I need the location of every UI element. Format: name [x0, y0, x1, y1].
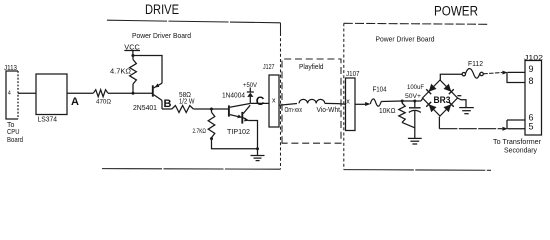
svg-text:POWER: POWER [434, 4, 478, 19]
svg-text:J127: J127 [263, 64, 275, 71]
svg-text:x: x [346, 98, 350, 105]
svg-text:9: 9 [529, 64, 534, 74]
svg-text:A: A [71, 96, 79, 108]
svg-text:470Ω: 470Ω [96, 99, 111, 106]
svg-text:Vio-Wht: Vio-Wht [317, 107, 341, 114]
svg-text:B: B [164, 98, 172, 110]
svg-text:Power Driver Board: Power Driver Board [132, 31, 191, 40]
svg-text:Orn-xxx: Orn-xxx [285, 107, 303, 114]
svg-text:x: x [272, 98, 276, 105]
svg-text:TIP102: TIP102 [227, 127, 250, 136]
svg-text:J102: J102 [524, 55, 543, 62]
svg-text:VCC: VCC [124, 43, 140, 52]
svg-text:1N4004: 1N4004 [222, 93, 245, 100]
svg-text:10KΩ: 10KΩ [379, 108, 396, 115]
svg-text:F104: F104 [373, 87, 387, 94]
svg-text:Playfield: Playfield [299, 64, 324, 71]
svg-text:5: 5 [529, 122, 534, 132]
svg-text:J113: J113 [4, 65, 17, 72]
svg-text:BR3: BR3 [434, 95, 451, 105]
svg-text:4.7KΩ: 4.7KΩ [110, 69, 131, 76]
svg-text:100uF: 100uF [407, 84, 424, 91]
svg-text:Board: Board [7, 137, 23, 144]
svg-text:8: 8 [529, 76, 534, 86]
svg-text:4: 4 [8, 91, 11, 97]
svg-text:CPU: CPU [7, 129, 20, 136]
svg-text:50V+: 50V+ [405, 93, 421, 100]
svg-text:C: C [256, 94, 265, 108]
svg-text:Secondary: Secondary [504, 146, 537, 155]
svg-text:J107: J107 [346, 71, 360, 78]
svg-text:1/2 W: 1/2 W [179, 99, 195, 106]
svg-text:DRIVE: DRIVE [145, 2, 179, 17]
svg-text:LS374: LS374 [38, 117, 58, 124]
svg-text:2.7KΩ: 2.7KΩ [193, 128, 207, 135]
svg-text:To: To [7, 122, 15, 129]
svg-text:+50V: +50V [243, 82, 258, 89]
svg-text:2N5401: 2N5401 [133, 105, 157, 112]
svg-text:Power Driver Board: Power Driver Board [376, 35, 435, 44]
svg-text:F112: F112 [468, 61, 483, 68]
